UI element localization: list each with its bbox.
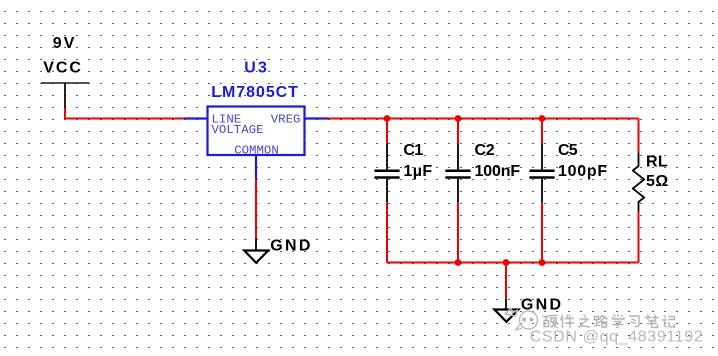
硬 [543, 316, 557, 328]
svg-text:VOLTAGE: VOLTAGE [212, 123, 264, 137]
svg-text:GND: GND [270, 237, 311, 254]
学 [612, 315, 624, 328]
junction dot (C1 / +5V rail) [384, 115, 391, 122]
svg-text:CSDN @qq_48391192: CSDN @qq_48391192 [530, 329, 703, 346]
wire +5V rail from U3 VREG to RL [329, 118, 639, 120]
pin COMMON (bottom stub) [255, 155, 257, 179]
wire VCC to U3 LINE pin [65, 108, 184, 119]
resistor RL [633, 153, 669, 211]
svg-text:100nF: 100nF [475, 163, 522, 180]
习 [630, 316, 640, 327]
svg-text:U3: U3 [244, 60, 268, 77]
junction dot (C5 / +5V rail) [539, 115, 546, 122]
junction dot (C5 / ground rail) [539, 259, 546, 266]
笔 [646, 315, 659, 328]
svg-text:LM7805CT: LM7805CT [211, 84, 299, 101]
wire ground rail (bottom) [387, 262, 639, 264]
pin LINE (left stub) [184, 117, 208, 119]
wire C2 top [457, 119, 459, 144]
svg-text:9V: 9V [53, 35, 76, 52]
记 [663, 316, 675, 328]
ground GND (left, under U3) [244, 237, 311, 262]
pin VREG (right stub) [305, 117, 329, 119]
junction dot (C2 / +5V rail) [455, 115, 462, 122]
voltage regulator U3 LM7805CT [184, 60, 329, 179]
wire U3 COMMON down to ground [255, 179, 257, 239]
wire C1 top [386, 119, 388, 144]
capacitor C2 [445, 142, 521, 203]
svg-text:C1: C1 [403, 142, 424, 159]
之 [579, 315, 590, 327]
wire C2 bottom [457, 202, 459, 262]
ground GND (bottom) [494, 296, 562, 322]
watermark text (hanzi strokes) [543, 315, 675, 328]
wire C5 top [541, 119, 543, 144]
wire ground stem from bottom rail [505, 263, 507, 300]
svg-text:VREG: VREG [271, 113, 301, 127]
wire rail right corner down to RL [638, 119, 640, 154]
U3 body [208, 107, 305, 156]
svg-text:100pF: 100pF [558, 163, 608, 180]
capacitor C1 [374, 142, 433, 203]
svg-text:VCC: VCC [43, 60, 82, 77]
svg-text:1µF: 1µF [403, 163, 433, 180]
watermark logo [505, 308, 538, 330]
wire RL bottom [638, 211, 640, 263]
件 [561, 315, 574, 328]
power VCC 9V [41, 35, 89, 108]
svg-text:RL: RL [646, 154, 669, 171]
capacitor C5 [529, 142, 608, 203]
wire C1 bottom [386, 202, 388, 262]
svg-text:C2: C2 [475, 142, 496, 159]
路 [595, 316, 608, 328]
svg-text:5Ω: 5Ω [646, 173, 669, 190]
svg-text:COMMON: COMMON [234, 144, 279, 158]
svg-text:C5: C5 [558, 142, 579, 159]
wire C5 bottom [541, 202, 543, 262]
junction dot (ground stem / ground rail) [503, 259, 510, 266]
junction dot (C2 / ground rail) [455, 259, 462, 266]
